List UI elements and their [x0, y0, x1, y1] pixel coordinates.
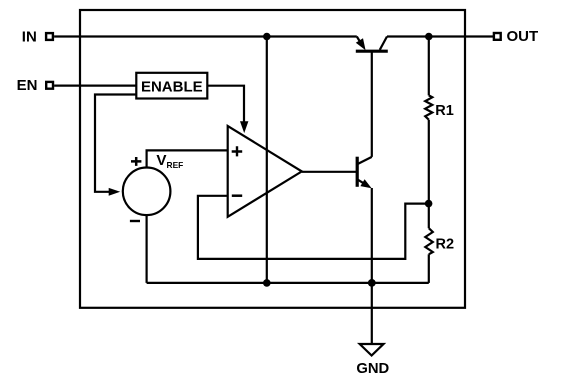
svg-text:IN: IN [22, 29, 37, 46]
Q1 collector lead [380, 37, 387, 50]
junction dot rail / GND stem [368, 279, 376, 287]
VREF plus sign [131, 157, 141, 166]
arrowhead onto error-amp top edge [240, 121, 248, 133]
pin terminal OUT [494, 33, 501, 40]
GND stem wire [371, 283, 373, 344]
svg-text:OUT: OUT [507, 28, 539, 45]
VREF minus sign [130, 220, 140, 222]
svg-text:GND: GND [356, 361, 389, 375]
pass transistor Q1 (PNP) base bar [356, 50, 388, 53]
junction dot IN / supply line [263, 33, 271, 41]
svg-text:R1: R1 [435, 103, 454, 119]
junction dot feedback node [425, 200, 433, 208]
Q2 collector lead [357, 157, 371, 164]
wire VREF top to error amp + input [147, 150, 228, 167]
resistor R1 top wire [428, 37, 430, 96]
wire Q1 base to Q2 collector [371, 51, 373, 157]
arrowhead into VREF [109, 188, 121, 196]
ENABLE block [136, 73, 207, 99]
resistor R1 zigzag [425, 95, 432, 119]
IC outline box [80, 10, 465, 308]
wire Q2 emitter to bottom rail [371, 188, 373, 283]
Q2 emitter lead with arrow [357, 179, 363, 183]
error amplifier op-amp triangle [228, 126, 302, 217]
wire IN rail [54, 35, 357, 37]
pin terminal IN [46, 33, 53, 40]
resistor R2 zigzag [425, 228, 433, 254]
resistor R2 top wire [428, 204, 430, 229]
wire ENABLE output to error amp (right, down) [207, 86, 244, 122]
op-amp + input sign [232, 146, 243, 156]
junction dot OUT / R1 [425, 33, 433, 41]
wire ENABLE output to VREF (left, down, right) [95, 95, 136, 192]
pin terminal EN [46, 82, 53, 89]
op-amp - input sign [232, 194, 242, 197]
svg-text:R2: R2 [436, 237, 455, 253]
voltage reference VREF circle [123, 168, 171, 216]
bottom ground rail [147, 282, 429, 284]
resistor R2 bottom wire [428, 254, 430, 283]
junction dot rail / supply line [263, 279, 271, 287]
svg-text:EN: EN [17, 77, 38, 94]
wire VREF bottom to ground rail [146, 215, 148, 283]
supply wire through error amp (IN to bottom rail) [266, 37, 268, 283]
GND symbol open triangle [360, 344, 384, 356]
wire EN to ENABLE block [54, 84, 136, 86]
driver transistor Q2 (NPN) base bar [356, 157, 359, 187]
resistor R1 bottom wire [428, 120, 430, 204]
Q1 emitter lead with arrow [357, 37, 362, 45]
feedback wire from node to op-amp - input [198, 196, 429, 259]
wire op-amp output to Q2 base [302, 171, 356, 173]
svg-text:ENABLE: ENABLE [141, 78, 203, 95]
wire Q1 collector to OUT [387, 35, 493, 37]
